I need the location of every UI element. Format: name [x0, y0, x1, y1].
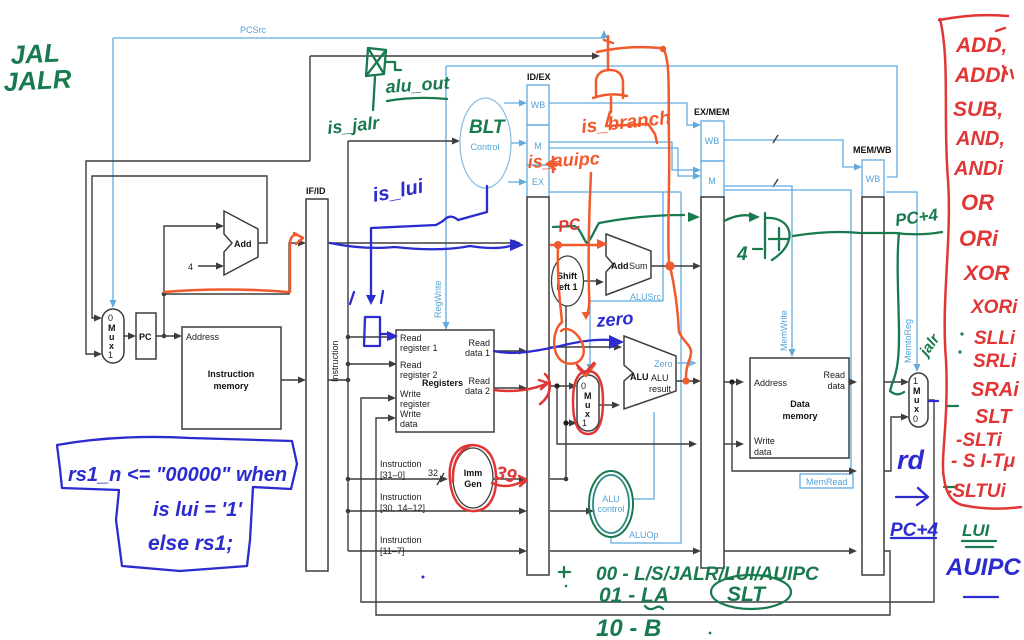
MemtoReg control line	[886, 192, 921, 372]
svg-text:WB: WB	[531, 100, 546, 110]
wire instruction to read register 1	[346, 334, 397, 341]
svg-text:Control: Control	[470, 142, 499, 152]
red arrow on read data 2	[494, 374, 550, 404]
svg-text:ALUOp: ALUOp	[629, 530, 659, 540]
write-back mux	[909, 373, 928, 427]
svg-text:4: 4	[736, 244, 748, 265]
wire PC up to Add	[164, 223, 224, 337]
svg-text:ADD,: ADD,	[955, 34, 1007, 57]
svg-text:XOR: XOR	[963, 262, 1010, 285]
svg-text:ALU: ALU	[651, 373, 669, 383]
Control unit oval	[460, 98, 511, 188]
svg-text:AUIPC: AUIPC	[945, 554, 1021, 581]
svg-text:is_branch: is_branch	[580, 108, 671, 138]
IF/ID pipeline register	[306, 186, 328, 571]
svg-text:Instruction: Instruction	[330, 340, 340, 382]
orange stroke AND output to is_branch	[606, 112, 657, 143]
svg-text:alu_out: alu_out	[385, 73, 451, 97]
wire rd back to write data	[376, 415, 890, 616]
ID/EX M box	[527, 125, 549, 165]
svg-text:data: data	[754, 447, 772, 457]
ID/EX pipeline register	[527, 72, 551, 575]
svg-text:M: M	[534, 141, 542, 151]
svg-text:WB: WB	[705, 136, 720, 146]
svg-text:MEM/WB: MEM/WB	[853, 145, 892, 155]
Imm Gen oval	[453, 448, 493, 508]
svg-text:SRLi: SRLi	[973, 351, 1017, 372]
svg-text:1: 1	[582, 418, 587, 428]
svg-text:register: register	[400, 399, 430, 409]
svg-text:Instruction: Instruction	[380, 535, 422, 545]
green ALUOp notes at bottom	[559, 564, 819, 640]
svg-text:Read: Read	[468, 338, 490, 348]
ALU control to ALU line	[633, 412, 654, 499]
svg-text:1: 1	[108, 350, 113, 360]
EX/MEM pipeline register	[694, 107, 730, 568]
PC register	[136, 313, 156, 359]
svg-text:Address: Address	[754, 378, 788, 388]
svg-text:[30, 14–12]: [30, 14–12]	[380, 503, 425, 513]
svg-text:result: result	[649, 384, 672, 394]
svg-text:OR: OR	[961, 190, 994, 215]
hand-drawn mux symbol green	[366, 48, 401, 110]
MEM/WB WB box	[862, 160, 884, 197]
svg-text:SUB,: SUB,	[953, 98, 1003, 121]
MemRead control line	[724, 190, 853, 488]
green SLT oval	[711, 575, 791, 609]
svg-text:Add: Add	[234, 239, 252, 249]
svg-text:0: 0	[108, 313, 113, 323]
wire read data 1 to ID/EX	[494, 348, 527, 355]
svg-text:Registers: Registers	[422, 378, 463, 388]
svg-text:JALR: JALR	[3, 64, 73, 98]
svg-text:zero: zero	[595, 308, 635, 331]
svg-text:- S I-Tμ: - S I-Tμ	[951, 451, 1016, 472]
adder Add (PC+4)	[224, 211, 258, 275]
wire read data 2 down to EX/MEM write data	[557, 386, 697, 448]
svg-text:IF/ID: IF/ID	[306, 186, 326, 196]
orange wire down to ALUSrc mux	[554, 247, 595, 376]
svg-text:Write: Write	[754, 436, 775, 446]
wire ID/EX WB to EX/MEM WB	[549, 103, 701, 129]
Shift left 1 oval	[552, 256, 584, 306]
svg-text:EX/MEM: EX/MEM	[694, 107, 730, 117]
svg-text:MemtoReg: MemtoReg	[903, 319, 913, 363]
ID/EX EX box	[527, 165, 549, 197]
wire ALU result to data memory address	[724, 379, 744, 386]
svg-text:00 - L/S/JALR/LUI/AUIPC: 00 - L/S/JALR/LUI/AUIPC	[596, 564, 819, 585]
svg-text:ID/EX: ID/EX	[527, 72, 551, 82]
wire PC to branch adder	[550, 242, 605, 249]
blue wire read data 1 to ALU	[494, 335, 624, 353]
wire mux output back to write register	[361, 395, 934, 603]
wire PC to IF/ID	[162, 240, 306, 297]
svg-text:-SLTi: -SLTi	[956, 430, 1002, 451]
svg-text:[11–7]: [11–7]	[380, 546, 404, 556]
blue wavy wire along PC bus	[330, 239, 524, 251]
svg-text:is_auipc: is_auipc	[527, 148, 600, 172]
wire read data 1 to ALU	[550, 344, 622, 351]
svg-text:Gen: Gen	[464, 479, 482, 489]
svg-text:ALUSrc: ALUSrc	[630, 292, 662, 302]
svg-text:MemWrite: MemWrite	[779, 310, 789, 351]
wire read data to MEM/WB	[849, 379, 857, 386]
svg-text:data: data	[400, 419, 418, 429]
svg-text:ALU: ALU	[630, 372, 649, 382]
svg-text:10 - B: 10 - B	[596, 615, 661, 640]
wire instruction[11-7] to ID/EX	[348, 535, 527, 556]
wire instruction to read register 2	[346, 361, 397, 368]
svg-text:jalr: jalr	[915, 330, 944, 361]
wire shift left to branch adder	[584, 279, 604, 286]
wire mux to PC	[124, 333, 136, 340]
wire ID/EX M to EX/MEM M	[549, 142, 701, 180]
MemWrite control line	[724, 186, 796, 357]
svg-text:control: control	[597, 504, 624, 514]
tick marks on control lines	[773, 135, 778, 187]
wire PC through IF/ID to ID/EX	[328, 240, 521, 247]
svg-text:0: 0	[913, 414, 918, 424]
svg-text:SLLi: SLLi	[974, 328, 1016, 349]
blue is_lui wire from control	[350, 186, 487, 305]
wire Imm Gen to ID/EX	[493, 476, 527, 483]
wire EX/MEM WB to MEM/WB WB	[724, 140, 862, 171]
svg-text:Imm: Imm	[464, 468, 483, 478]
svg-text:else rs1;: else rs1;	[148, 532, 233, 555]
red instruction list text	[946, 28, 1019, 502]
ALUSrc mux	[577, 375, 599, 431]
ALU control oval	[593, 475, 629, 533]
PC mux	[102, 309, 124, 363]
svg-text:data 1: data 1	[465, 348, 490, 358]
wire read data 2 to ID/EX	[494, 385, 527, 392]
svg-text:SLT: SLT	[975, 406, 1013, 428]
EX/MEM WB box	[701, 121, 724, 161]
wire ALU result to write-back mux input 0	[884, 414, 909, 472]
zero flag wire	[676, 360, 697, 367]
instruction memory	[182, 327, 281, 429]
svg-text:MemRead: MemRead	[806, 477, 848, 487]
svg-text:rd: rd	[897, 445, 925, 475]
wire write data into data memory	[724, 441, 744, 448]
svg-text:ORi: ORi	[959, 226, 999, 251]
svg-text:Add: Add	[611, 261, 629, 271]
svg-text:data: data	[827, 381, 845, 391]
wire PC+4 loop to PC mux input 0	[92, 176, 267, 322]
svg-text:data 2: data 2	[465, 386, 490, 396]
svg-text:1: 1	[913, 376, 918, 386]
orange overdraw on PC wire	[551, 239, 608, 249]
branch adder Add Sum	[606, 234, 651, 295]
registers file	[396, 330, 494, 432]
instruction bus from IF/ID	[328, 141, 350, 551]
note AUIPC blue	[945, 554, 1021, 597]
wire ALU result to EX/MEM	[676, 378, 701, 385]
red circle around Imm Gen	[450, 445, 496, 511]
svg-text:ALU: ALU	[602, 494, 620, 504]
svg-text:SRAi: SRAi	[971, 379, 1019, 401]
svg-text:XORi: XORi	[970, 297, 1018, 318]
svg-text:Instruction: Instruction	[380, 492, 422, 502]
svg-text:01 - LA: 01 - LA	[599, 584, 669, 607]
green PC+4 wire through EX/MEM	[553, 212, 760, 243]
wire instruction[31-0] to Imm Gen	[346, 459, 448, 485]
svg-text:rs1_n <= "00000" when: rs1_n <= "00000" when	[68, 464, 287, 486]
svg-text:4: 4	[188, 262, 193, 272]
svg-text:EX: EX	[532, 177, 544, 187]
EX/MEM M box	[701, 161, 724, 197]
svg-text:PCSrc: PCSrc	[240, 25, 267, 35]
svg-text:Instruction: Instruction	[208, 369, 255, 379]
svg-text:Read: Read	[468, 376, 490, 386]
ID/EX WB box	[527, 85, 549, 125]
wire branch adder to EX/MEM	[651, 263, 701, 270]
red check above mux	[577, 363, 594, 373]
svg-text:PC+4: PC+4	[894, 205, 940, 230]
svg-text:Instruction: Instruction	[380, 459, 422, 469]
orange branch wire across top	[597, 46, 691, 385]
hand-drawn AND gate orange	[593, 70, 627, 112]
wire read data to write-back mux input 1	[884, 379, 909, 386]
svg-text:LUI: LUI	[962, 521, 991, 540]
green circle around ALU control	[589, 471, 633, 537]
svg-text:RegWrite: RegWrite	[433, 281, 443, 318]
red circle around ALUSrc mux	[573, 371, 603, 434]
svg-text:ADDi: ADDi	[954, 64, 1007, 87]
svg-text:Read: Read	[823, 370, 845, 380]
hand-drawn PC+4 adder green	[736, 213, 790, 265]
svg-text:-SLTUi: -SLTUi	[946, 481, 1007, 502]
svg-text:memory: memory	[782, 411, 817, 421]
blue dash at mux output	[929, 400, 938, 402]
stray blue dot	[422, 576, 425, 579]
orange wavy wire PC to IF/ID	[164, 233, 303, 292]
ALUOp control line	[611, 192, 681, 543]
wire instruction memory to IF/ID	[281, 377, 306, 384]
green wire PC+4 to write-back mux	[793, 232, 942, 394]
note alu_out green	[385, 73, 451, 101]
svg-text:Data: Data	[790, 399, 811, 409]
svg-text:BLT: BLT	[469, 117, 506, 138]
svg-text:memory: memory	[213, 381, 248, 391]
svg-text:M: M	[708, 176, 716, 186]
svg-text:Read: Read	[400, 360, 422, 370]
svg-text:ANDi: ANDi	[953, 158, 1003, 180]
svg-text:Address: Address	[186, 332, 220, 342]
red instruction list bracket line	[939, 15, 1021, 509]
svg-text:SLT: SLT	[727, 583, 767, 606]
constant 4 into Add	[188, 262, 224, 272]
note JAL JALR green	[3, 38, 73, 98]
data memory	[750, 358, 849, 458]
svg-text:x: x	[914, 404, 919, 414]
wire Control to ID/EX WB	[504, 102, 523, 104]
green dashes and dots in instruction list	[944, 332, 964, 487]
svg-text:is lui = '1': is lui = '1'	[153, 499, 243, 521]
svg-text:Write: Write	[400, 389, 421, 399]
wire PC to instruction memory	[156, 333, 182, 340]
wire imm to shift left and ALU mux	[550, 306, 577, 481]
svg-text:Write: Write	[400, 409, 421, 419]
svg-text:is_lui: is_lui	[371, 175, 426, 206]
svg-text:PC: PC	[139, 332, 152, 342]
svg-text:Sum: Sum	[629, 261, 648, 271]
PCSrc control line	[110, 25, 608, 308]
svg-text:AND,: AND,	[955, 128, 1005, 150]
svg-text:register 1: register 1	[400, 343, 438, 353]
svg-text:Zero: Zero	[654, 359, 673, 369]
svg-text:32: 32	[428, 468, 438, 478]
blue hand-drawn mux box on rs1	[364, 317, 398, 346]
wire read data 2 to ALUSrc mux	[550, 383, 577, 390]
svg-text:0: 0	[581, 381, 586, 391]
wire instruction[30,14-12] to ALU control	[550, 508, 594, 515]
wire mux to ALU	[599, 402, 620, 409]
svg-text:[31–0]: [31–0]	[380, 470, 405, 480]
note LUI green underlined	[962, 521, 996, 547]
orange is_auipc wire into EX box	[547, 157, 591, 320]
svg-text:Read: Read	[400, 333, 422, 343]
orange wire into AND gate from top	[604, 36, 613, 70]
wire instruction[11-7] through stages	[550, 548, 857, 555]
svg-text:Shift: Shift	[557, 271, 577, 281]
red 39 width annotation	[492, 462, 527, 488]
RegWrite control rectangle	[433, 66, 897, 330]
wire branch target to PC mux input 1	[86, 53, 600, 358]
wire ALU result around to MEM/WB	[732, 382, 857, 475]
svg-text:is_jalr: is_jalr	[326, 113, 381, 138]
note rd -> PC+4 blue	[890, 445, 938, 541]
wire Control to ID/EX M	[511, 142, 523, 144]
wire instruction[30,14-12] to ID/EX	[346, 492, 527, 515]
MEM/WB pipeline register	[853, 145, 892, 575]
ALUSrc control line	[549, 192, 681, 372]
blue note box rs1_n	[57, 437, 297, 571]
svg-text:PC: PC	[557, 216, 582, 236]
wire instruction to Control	[348, 138, 460, 145]
wire Control to ID/EX EX	[508, 181, 523, 183]
svg-text:WB: WB	[866, 174, 881, 184]
ALU	[624, 336, 676, 409]
